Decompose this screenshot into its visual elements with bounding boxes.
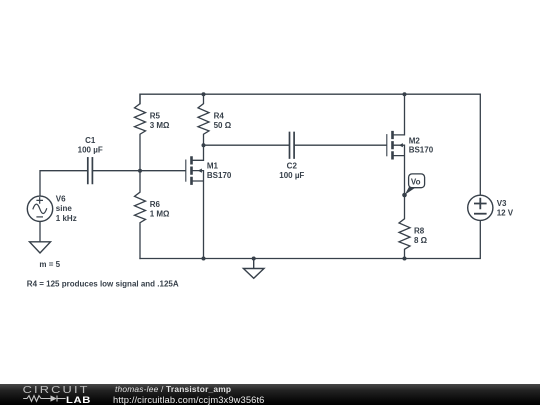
transistor M2 (387, 94, 405, 195)
svg-text:m = 5: m = 5 (39, 260, 60, 269)
junction R8 bottom rail (403, 257, 407, 261)
resistor R6 (135, 171, 146, 259)
junction R4 top rail (202, 92, 206, 96)
svg-text:8 Ω: 8 Ω (414, 236, 428, 245)
junction M2 drain top rail (403, 92, 407, 96)
svg-text:C2: C2 (287, 162, 298, 171)
label C2 100 µF (279, 162, 304, 181)
svg-text:100 µF: 100 µF (78, 146, 103, 155)
svg-text:12 V: 12 V (497, 209, 514, 218)
wire C2 to M2 gate (295, 144, 386, 146)
svg-text:50 Ω: 50 Ω (214, 121, 232, 130)
label M2 BS170 (409, 136, 434, 154)
svg-text:R4 = 125 produces low signal a: R4 = 125 produces low signal and .125A (27, 280, 179, 289)
svg-text:LAB: LAB (66, 396, 91, 405)
label C1 100 µF (78, 136, 103, 155)
svg-text:M1: M1 (207, 162, 219, 171)
label R8 8 Ω (414, 227, 428, 246)
voltage source V6 (27, 196, 52, 221)
footer bar (0, 384, 540, 405)
junction R4 bottom / M1 drain (202, 143, 206, 147)
wire C1 to M1 gate (93, 170, 185, 172)
svg-text:sine: sine (56, 204, 73, 213)
label R5 3 MΩ (150, 112, 170, 131)
label R6 1 MΩ (150, 200, 170, 219)
footer text (115, 384, 231, 394)
resistor R5 (135, 94, 146, 171)
svg-text:C1: C1 (85, 136, 96, 145)
label V3 12 V (497, 199, 514, 218)
svg-text:R5: R5 (150, 112, 161, 121)
label R4 50 Ω (214, 112, 232, 131)
CircuitLab logo (18, 384, 96, 405)
svg-text:M2: M2 (409, 136, 421, 145)
voltage source V3 (468, 195, 493, 220)
label M1 BS170 (207, 162, 232, 180)
svg-text:100 µF: 100 µF (279, 171, 304, 180)
wire V6 to C1 (40, 171, 87, 196)
svg-text:BS170: BS170 (409, 146, 434, 155)
label V6 sine 1 kHz (56, 195, 77, 223)
svg-text:1 MΩ: 1 MΩ (150, 210, 170, 219)
svg-text:R8: R8 (414, 227, 425, 236)
wire V6 to ground (39, 221, 41, 241)
wire bottom rail (140, 220, 480, 258)
ground (bottom rail) (243, 259, 264, 279)
junction C1/R5/R6/M1 gate (138, 169, 142, 173)
resistor R4 (198, 94, 209, 145)
resistor R8 (399, 195, 410, 259)
svg-text:1 kHz: 1 kHz (56, 214, 77, 223)
svg-text:3 MΩ: 3 MΩ (150, 121, 170, 130)
svg-text:V3: V3 (497, 199, 507, 208)
junction ground tap bottom rail (252, 257, 256, 261)
svg-text:Vo: Vo (411, 177, 421, 186)
junction M1 source bottom rail (202, 257, 206, 261)
svg-text:CIRCUIT: CIRCUIT (23, 385, 90, 395)
wire top rail (140, 94, 480, 195)
svg-text:V6: V6 (56, 195, 66, 204)
svg-text:BS170: BS170 (207, 171, 232, 180)
svg-text:R4: R4 (214, 112, 225, 121)
wire node to C2 (204, 144, 289, 146)
svg-text:R6: R6 (150, 200, 161, 209)
capacitor C2 (290, 133, 295, 159)
capacitor C1 (88, 158, 93, 184)
node Vo flag (402, 174, 424, 197)
ground (V6) (30, 242, 51, 253)
transistor M1 (186, 145, 204, 258)
